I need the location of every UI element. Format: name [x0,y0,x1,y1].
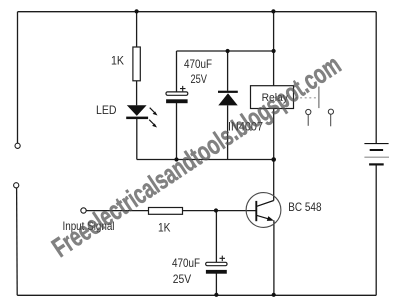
junction node top relay branch [271,9,275,13]
wire C1 vertical upper [176,51,178,92]
wire R2 to base [183,210,256,212]
junction node collector y159 [271,157,276,162]
transistor Q1 BC548 [246,193,281,228]
wire relay coil top [273,12,275,86]
svg-text:470uF: 470uF [184,57,212,71]
wire input terminal to R2 [86,210,148,212]
wire R1 branch top [136,12,138,47]
svg-text:LED: LED [96,103,117,117]
wire left vertical to terminal [17,12,19,143]
svg-text:25V: 25V [173,272,191,286]
wire horizontal node row y159 [137,159,274,161]
wire C1 elbow horizontal y51 [177,50,274,52]
capacitor C1 470uF 25V [166,86,188,103]
wire C2 branch vertical upper [215,211,217,262]
relay contact terminal 1 [306,109,311,125]
LED arrow 1 [150,108,158,116]
svg-text:1K: 1K [111,53,124,67]
diode D2 1N4007 [218,91,238,106]
wire D2 anode top [227,51,229,91]
capacitor C2 470uF 25V [206,256,227,274]
wire bottom rail [17,294,376,296]
terminal lower left [14,183,19,188]
wire LED to node row [136,119,138,160]
junction node emitter ground [272,293,276,297]
relay switch lever [318,87,320,109]
wire C2 branch vertical lower [215,274,217,296]
wire battery bottom to ground rail [375,165,377,295]
junction node relay wire y51 [272,49,276,53]
terminal upper left [15,143,20,148]
relay contact terminal 2 [328,109,333,126]
LED D1 [126,105,148,119]
wire top rail [18,11,377,13]
junction node C1 bottom y159 [174,157,178,161]
LED arrow 2 [149,120,157,128]
junction node top R1 branch [135,9,139,13]
wire D2 cathode bottom [227,105,229,159]
battery BT1 [364,144,389,166]
junction node base/C2 [214,208,218,212]
junction node C2 ground [214,293,218,297]
terminal input signal [81,208,86,213]
relay K1 coil box [251,86,294,109]
junction node diode top [226,49,230,53]
wire emitter down to ground rail [273,220,275,295]
wire relay coil bottom to collector [273,109,275,201]
svg-text:1K: 1K [158,221,171,235]
resistor R2 1K horizontal [149,208,183,215]
wire lower-left vertical from input terminal [16,188,19,295]
wire right vertical to battery [375,12,377,143]
svg-text:470uF: 470uF [172,256,200,270]
relay mechanical dashed link [296,97,318,99]
svg-text:BC 548: BC 548 [288,200,321,214]
wire C1 vertical lower [176,103,178,160]
svg-text:25V: 25V [191,72,208,86]
wire R1 to LED [136,81,138,106]
resistor R1 1K vertical [133,47,140,81]
